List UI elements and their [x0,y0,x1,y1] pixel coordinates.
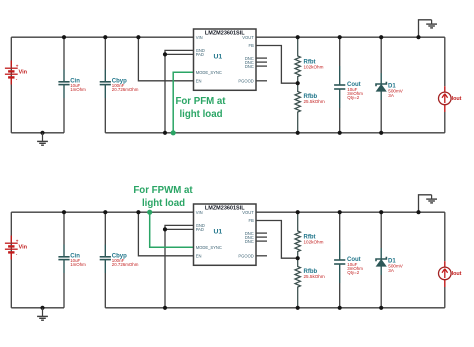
svg-text:VOUT: VOUT [242,210,254,215]
capacitor Cin [58,212,86,308]
junction D1-bottom [379,131,383,135]
wire MODE_SYNC to GND (green) [173,72,193,133]
junction Rfbt-top [296,35,300,39]
svg-text:102kOhm: 102kOhm [304,65,324,70]
wire PAD pin to ground rail [165,54,194,132]
wire MODE_SYNC to VIN (green) [150,212,194,247]
junction EN-Vin [136,210,140,214]
wire battery column [10,212,12,308]
junction Rfbb-bottom [296,131,300,135]
junction Cin-top [62,35,66,39]
svg-text:25.5kOhm: 25.5kOhm [304,274,325,279]
svg-text:1mOhm: 1mOhm [70,262,86,267]
svg-text:MODE_SYNC: MODE_SYNC [196,70,222,75]
wire right column to Iout [444,37,446,86]
svg-text:+: + [16,238,19,243]
junction FB-divider [296,256,300,260]
wire GND pin [165,50,194,54]
svg-text:light load: light load [142,198,185,209]
junction Cout-bottom [338,306,342,310]
capacitor Cbyp [100,212,139,308]
junction ground-VOUT rail [416,210,420,214]
capacitor Cout [334,241,363,283]
resistor Rfbb [295,83,300,133]
svg-text:LMZM23601SIL: LMZM23601SIL [205,31,245,37]
label Rfbt [304,234,324,244]
svg-text:20.726mOhm: 20.726mOhm [112,262,139,267]
annotation: For FPWM at light load [133,185,193,209]
svg-text:25.5kOhm: 25.5kOhm [304,99,325,104]
wire PAD pin to ground rail [165,229,194,307]
svg-text:Iout: Iout [452,271,462,277]
junction Cin-top [62,210,66,214]
junction D1-bottom [379,306,383,310]
wire DNC stub 3 [256,240,267,242]
svg-text:FB: FB [249,43,255,48]
svg-text:PGOOD: PGOOD [238,254,253,259]
wire PGOOD stub [256,255,267,257]
junction Cout-top [338,210,342,214]
capacitor Cin [58,37,86,133]
svg-text:MODE_SYNC: MODE_SYNC [196,245,222,250]
resistor Rfbt [295,37,300,83]
svg-text:PAD: PAD [196,227,204,232]
wire GND pin [165,225,194,229]
svg-text:VOUT: VOUT [242,35,254,40]
svg-text:3A: 3A [388,268,395,273]
wire below Iout [444,112,446,133]
junction D1-top [379,35,383,39]
capacitor Cout [334,66,363,108]
svg-text:Vin: Vin [19,69,28,75]
junction GND-PAD [163,227,167,231]
wire bottom rail left segment [11,307,64,309]
wire DNC stub 2 [256,61,267,63]
junction Cout-bottom [338,131,342,135]
wire below Iout [444,287,446,308]
wire EN to Vin rail [138,37,193,81]
op-amp module U1 LMZM23601SIL [194,29,257,90]
label D1 [388,259,404,273]
label Rfbb [304,269,325,279]
junction Rfbb-bottom [296,306,300,310]
svg-text:VIN: VIN [196,35,203,40]
svg-text:Iout: Iout [452,96,462,102]
wire DNC stub 3 [256,65,267,67]
wire bottom rail right segment [105,132,445,134]
label Rfbb [304,94,325,104]
diode D1 [376,37,386,133]
wire Cout leads [339,37,341,133]
current source Iout [439,86,462,112]
wire VOUT rail [256,211,445,213]
svg-text:VIN: VIN [196,210,203,215]
wire DNC stub 1 [256,232,267,234]
wire FB to feedback divider [256,46,298,84]
svg-text:+: + [16,63,19,68]
junction Cout-top [338,35,342,39]
ground (input return) [37,306,48,321]
svg-text:For FPWM at: For FPWM at [133,185,193,196]
junction Cbyp-top [103,35,107,39]
junction FB-divider [296,81,300,85]
svg-text:DNC: DNC [245,239,254,244]
wire top rail (Vin to U1 VIN) [11,36,193,38]
svg-text:U1: U1 [214,54,223,61]
svg-text:light load: light load [179,109,222,120]
junction EN-Vin [136,35,140,39]
svg-text:3A: 3A [388,93,395,98]
wire battery column [10,37,12,133]
wire top rail (Vin to U1 VIN) [11,211,193,213]
label Rfbt [304,59,324,69]
svg-text:DNC: DNC [245,64,254,69]
svg-text:1mOhm: 1mOhm [70,87,86,92]
svg-text:PGOOD: PGOOD [238,79,253,84]
wire right column to Iout [444,212,446,261]
svg-text:20.726mOhm: 20.726mOhm [112,87,139,92]
wire DNC stub 2 [256,236,267,238]
annotation: For PFM at light load [175,96,226,120]
svg-text:PAD: PAD [196,52,204,57]
ground (input return) [37,131,48,146]
op-amp module U1 LMZM23601SIL [194,204,257,265]
resistor Rfbt [295,212,300,258]
ground (output) [426,20,437,28]
junction D1-top [379,210,383,214]
junction Rfbt-top [296,210,300,214]
current source Iout [439,261,462,287]
svg-text:For PFM at: For PFM at [175,96,226,107]
wire to output ground [419,20,432,37]
wire Cout leads [339,212,341,308]
resistor Rfbb [295,258,300,308]
junction MODE_SYNC-VIN (green) [147,210,152,215]
wire bottom rail left segment [11,132,64,134]
wire PGOOD stub [256,80,267,82]
diode D1 [376,212,386,308]
label D1 [388,84,404,98]
voltage source Vin [5,236,28,260]
svg-text:U1: U1 [214,229,223,236]
junction MODE_SYNC-GND (green) [171,130,176,135]
junction ground-VOUT rail [416,35,420,39]
svg-text:Vin: Vin [19,244,28,250]
svg-text:Qty=2: Qty=2 [347,95,359,100]
svg-text:EN: EN [196,254,202,259]
wire EN to Vin rail [138,212,193,256]
wire bottom rail right segment [105,307,445,309]
svg-text:FB: FB [249,218,255,223]
voltage source Vin [5,61,28,85]
junction PAD-rail [163,306,167,310]
junction PAD-rail [163,131,167,135]
capacitor Cbyp [100,37,139,133]
wire DNC stub 1 [256,57,267,59]
svg-text:Qty=2: Qty=2 [347,270,359,275]
svg-text:102kOhm: 102kOhm [304,240,324,245]
junction Cbyp-top [103,210,107,214]
svg-text:EN: EN [196,79,202,84]
wire to output ground [419,195,432,212]
junction GND-PAD [163,52,167,56]
wire VOUT rail [256,36,445,38]
ground (output) [426,195,437,203]
svg-text:LMZM23601SIL: LMZM23601SIL [205,206,245,212]
wire FB to feedback divider [256,221,298,259]
